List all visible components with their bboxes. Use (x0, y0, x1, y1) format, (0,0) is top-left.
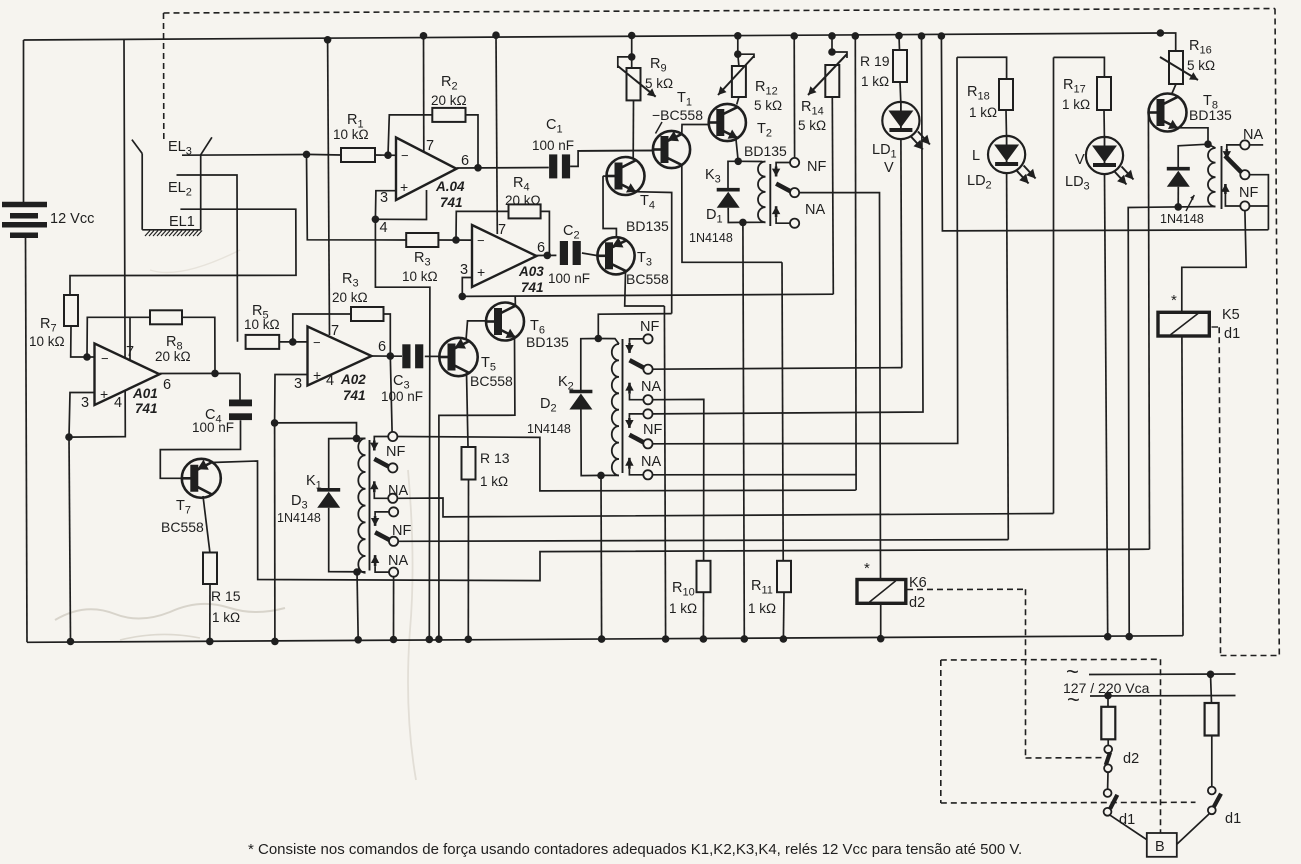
svg-text:10 kΩ: 10 kΩ (402, 269, 438, 284)
capacitor C3 (402, 344, 410, 368)
wire K3 bottom to 0V (743, 222, 744, 639)
svg-text:A01: A01 (132, 386, 158, 401)
node A01 pin3 (65, 433, 73, 441)
svg-text:741: 741 (343, 388, 366, 403)
switch d1R blade (1214, 794, 1221, 808)
contact d2 bottom (1104, 764, 1112, 772)
relay contacts K3 (776, 163, 790, 167)
node K3 coil top (734, 158, 742, 166)
relay core K1 (369, 440, 371, 571)
dashed K6 d2 route (907, 588, 1026, 590)
wire LD3 loop top (1054, 57, 1105, 77)
resistor R11 (777, 561, 791, 592)
svg-text:BD135: BD135 (744, 143, 787, 159)
wire 0V bottom bus (27, 636, 1183, 643)
svg-text:NF: NF (386, 444, 405, 460)
wire T6 emitter to 0V (439, 337, 515, 640)
wire R14 pot jog (832, 52, 847, 58)
svg-text:3: 3 (294, 376, 302, 392)
junction bottom bus 2 (206, 638, 214, 646)
svg-text:BD135: BD135 (526, 334, 569, 350)
wire A02 pin3 down (275, 375, 308, 423)
wire R9 pot jog (618, 57, 632, 68)
svg-text:V: V (884, 160, 894, 176)
svg-text:741: 741 (521, 280, 544, 295)
svg-text:NA: NA (388, 483, 408, 499)
wire A02 out down to K1 NF (390, 356, 392, 436)
wire d1L to B (1110, 815, 1149, 841)
fuse left (1107, 696, 1109, 707)
node AC line2 (1104, 692, 1112, 700)
wire R12 to T2 collector (737, 97, 739, 105)
junction bottom bus 11 (662, 635, 670, 643)
svg-text:BD135: BD135 (1189, 107, 1232, 123)
wire T6 collector tap (514, 296, 516, 306)
svg-text:3: 3 (380, 190, 388, 206)
svg-text:12 Vcc: 12 Vcc (50, 211, 94, 227)
node A02 pin3 (271, 419, 279, 427)
box B (1147, 833, 1177, 857)
relay contacts K2 group2 (629, 414, 643, 418)
svg-text:1N4148: 1N4148 (277, 511, 321, 525)
svg-text:B: B (1155, 839, 1165, 855)
svg-text:5 kΩ: 5 kΩ (798, 118, 826, 133)
node K4 coil bottom (1174, 203, 1182, 211)
node A01 out (211, 370, 219, 378)
capacitor C4 (229, 400, 252, 407)
node A02 inv (289, 338, 297, 346)
svg-text:7: 7 (331, 323, 339, 339)
svg-text:6: 6 (537, 240, 545, 256)
capacitor C2 (560, 241, 568, 265)
svg-text:*: * (864, 560, 870, 577)
wire T4 base to T3 collector (603, 176, 616, 238)
wire emitters to 0V (664, 306, 665, 639)
battery 12 Vcc (23, 40, 25, 203)
wire node to K1 coil top (275, 423, 357, 439)
wire K1 NF1 to bus riser (397, 437, 855, 491)
junction bottom bus 9 (598, 635, 606, 643)
svg-text:4: 4 (326, 373, 334, 389)
wire K4 NF right (1250, 205, 1269, 207)
wire R5 to A02 inv (279, 341, 307, 343)
svg-text:10 kΩ: 10 kΩ (29, 334, 65, 349)
svg-text:3: 3 (81, 395, 89, 411)
wire A01 pin3 down (69, 393, 95, 438)
wire +12V top bus (24, 33, 1161, 40)
wire D3 anode to coil bottom (329, 508, 366, 572)
svg-text:1 kΩ: 1 kΩ (669, 601, 697, 616)
junction bus A03supply (492, 31, 500, 39)
junction bottom bus 4 (426, 636, 434, 644)
node K2 coil bottom (597, 472, 605, 480)
transistor T8 (1149, 94, 1187, 132)
wire R4 to A03 out (541, 211, 550, 255)
diode D3 (317, 488, 340, 492)
LED LD2 (988, 136, 1025, 173)
wire A01 output (160, 372, 241, 374)
wire K4 common right (1250, 175, 1269, 230)
wire LD1 cathode down (900, 139, 903, 367)
wire R16 jog (1160, 33, 1175, 51)
svg-text:R 13: R 13 (480, 450, 510, 466)
node A04 out (474, 164, 482, 172)
wire K2 NA1 to R10 (653, 399, 704, 560)
wire R12 pot jog (738, 54, 754, 58)
wire R7 to A01 inv (71, 326, 95, 357)
node K1 coil top (353, 435, 361, 443)
resistor R1 (341, 148, 375, 162)
wire K4 NA stub (1250, 144, 1264, 146)
svg-text:R 15: R 15 (211, 588, 241, 604)
wire to C4 (239, 373, 241, 399)
wire EL1 to R7 (70, 209, 296, 295)
transistor T7 (182, 459, 221, 498)
wire R3b to A02 out (384, 314, 391, 356)
svg-text:+: + (100, 386, 108, 402)
resistor R15 (203, 553, 217, 585)
junction bus R9 (628, 32, 636, 40)
svg-text:100 nF: 100 nF (532, 138, 574, 153)
wire K1 NA2 to 0V (393, 577, 395, 640)
wire T3 emitter (625, 272, 665, 306)
junction bus 855 (852, 32, 860, 40)
LED LD3 (1086, 137, 1123, 174)
svg-text:NA: NA (805, 202, 825, 218)
junction bottom bus 6 (435, 635, 443, 643)
relay core K3 (769, 164, 771, 226)
wire pin3 stub right (375, 190, 426, 220)
diode D4 (1167, 167, 1190, 171)
svg-text:BC558: BC558 (626, 271, 669, 287)
svg-text:1 kΩ: 1 kΩ (1062, 97, 1090, 112)
wire LD3 cathode to 0V (1105, 174, 1108, 637)
arrow R16 wiper (1160, 57, 1198, 80)
wire EL3node to R1 (307, 153, 342, 156)
svg-text:10 kΩ: 10 kΩ (244, 317, 280, 332)
wire T1 collector down (682, 166, 782, 263)
dashed link border (1221, 655, 1280, 657)
svg-text:L: L (972, 148, 980, 164)
svg-text:BC558: BC558 (161, 519, 204, 535)
wire D4 anode (1177, 187, 1179, 207)
wire R15 to 0V (209, 584, 211, 641)
svg-text:R 19: R 19 (860, 53, 890, 69)
wire T4 emitter down (635, 192, 672, 314)
svg-text:d2: d2 (1123, 751, 1139, 767)
node K1 coil bottom (353, 568, 361, 576)
op-amp A03 (472, 225, 537, 287)
diode D2 (569, 390, 592, 394)
node K2 coil top (595, 335, 603, 343)
junction bottom bus 13 (1125, 633, 1133, 641)
svg-text:NA: NA (388, 553, 408, 569)
potentiometer R16 (1169, 51, 1183, 84)
pointer D4 label (1186, 195, 1194, 211)
svg-text:4: 4 (114, 395, 122, 411)
potentiometer R9 (627, 68, 641, 100)
node K4 coil top (1204, 140, 1212, 148)
resistor R10 (697, 561, 711, 592)
svg-text:5 kΩ: 5 kΩ (1187, 58, 1215, 73)
wire T2 emitter to K3 (736, 140, 738, 162)
node A02 out (387, 352, 395, 360)
junction bottom bus 5 (465, 636, 473, 644)
dashed K5 d1 route (1219, 327, 1220, 655)
svg-text:3: 3 (460, 262, 468, 278)
svg-text:NF: NF (1239, 185, 1258, 201)
junction bottom bus 7 (354, 636, 362, 644)
wire A02 output (372, 355, 403, 357)
svg-text:~: ~ (1067, 687, 1080, 712)
resistor R4 (509, 204, 541, 218)
svg-text:6: 6 (461, 153, 469, 169)
relay contacts K1 group1 (374, 437, 388, 441)
svg-text:6: 6 (378, 339, 386, 355)
junction bottom bus 14 (700, 635, 708, 643)
relay contacts K4 (1240, 140, 1249, 149)
switch d1L blade (1110, 795, 1117, 809)
wire bus riser x855 (854, 36, 857, 490)
wire bus to A04 pin7 (423, 36, 425, 152)
svg-text:20 kΩ: 20 kΩ (431, 93, 467, 108)
svg-text:+: + (400, 179, 408, 195)
wire K1 C2 to LD2 (398, 540, 1008, 542)
svg-text:−BC558: −BC558 (652, 107, 703, 123)
pointer T1 label (656, 122, 663, 134)
wire R16 to T8 collector (1172, 84, 1177, 95)
wire K1 NA1 to LD3 loop (398, 498, 1053, 517)
resistor R17 (1097, 77, 1111, 110)
wire K3 common to K6 (799, 193, 880, 580)
svg-text:−: − (313, 335, 321, 350)
svg-text:20 kΩ: 20 kΩ (332, 290, 368, 305)
wire d2 to d1 (1107, 772, 1109, 789)
wire D1 cathode (728, 161, 738, 189)
wire D4 cathode (1178, 144, 1208, 169)
wire T7 emitter to T8 base (212, 461, 1150, 581)
relay coil K2 (612, 344, 619, 475)
switch d2 blade (1106, 753, 1110, 766)
wire K2 NF2 to bus (653, 36, 924, 414)
wire LD3 loop left (1053, 57, 1055, 513)
wire bus to K4 common (941, 36, 1268, 231)
svg-text:NF: NF (643, 422, 662, 438)
junction bottom bus 10 (741, 635, 749, 643)
svg-text:BC558: BC558 (470, 373, 513, 389)
wire A03 feedback up (456, 211, 509, 240)
svg-text:741: 741 (440, 195, 463, 210)
svg-text:K6: K6 (909, 575, 927, 591)
wire bus to A02 pin7 (328, 40, 330, 335)
node K3 coil bottom (739, 219, 747, 227)
svg-text:5 kΩ: 5 kΩ (754, 98, 782, 113)
svg-text:7: 7 (426, 138, 434, 154)
junction bus A02supply (324, 36, 332, 44)
wire K2 NA2 to riser (653, 474, 856, 476)
transistor T2 (709, 104, 746, 141)
wire bus to A01+ node (69, 40, 125, 437)
arrow R14 wiper (808, 54, 847, 95)
junction bottom bus 3 (271, 638, 279, 646)
wire R11 to 0V (782, 592, 785, 639)
wire K2 coil top to T4 emitter (598, 314, 671, 339)
relay coil K3 (758, 162, 766, 223)
relay coil K4 (1208, 148, 1216, 207)
op-amp A02 (308, 327, 372, 386)
wire R14 wiper line down (832, 97, 833, 294)
node A03 out (544, 252, 552, 260)
wire R13 to 0V (467, 480, 469, 640)
junction bus R14 (828, 32, 836, 40)
wire D1 anode (728, 208, 743, 223)
wire R19 to LD1 (899, 82, 902, 102)
resistor R13 (462, 447, 476, 480)
svg-text:1 kΩ: 1 kΩ (212, 610, 240, 625)
wire T8 emitter to K4 coil (1178, 128, 1209, 144)
capacitor C1 (549, 154, 557, 178)
wire A02 feedback up (293, 314, 351, 342)
junction bus R19 (895, 32, 903, 40)
svg-text:d1: d1 (1225, 811, 1241, 827)
potentiometer R14 (825, 65, 839, 97)
wire A04 output to C1 (457, 167, 549, 170)
resistor R2 (432, 108, 465, 122)
junction bus R12 (734, 32, 742, 40)
svg-text:V: V (1075, 152, 1085, 168)
svg-text:1 kΩ: 1 kΩ (748, 601, 776, 616)
junction bottom bus 16 (877, 635, 885, 643)
junction bus K3NF (790, 32, 798, 40)
svg-text:1N4148: 1N4148 (527, 422, 571, 436)
junction bottom bus 8 (390, 636, 398, 644)
wire T1 emitter to T2 base (682, 125, 713, 135)
dashed center to B (1160, 659, 1162, 833)
wire R10 to 0V (702, 592, 704, 639)
wire K2 C2 to LD2 loop (653, 57, 958, 444)
relay core K2 (622, 339, 624, 473)
wire to D3 (329, 438, 366, 489)
wire A01 feedback up (87, 317, 150, 357)
svg-text:NA: NA (641, 454, 661, 470)
svg-text:* Consiste nos comandos de for: * Consiste nos comandos de força usando … (248, 841, 1022, 858)
node A04 inv (384, 151, 392, 159)
wire node down to 0V (274, 423, 276, 642)
wire EL3 to node (182, 154, 307, 157)
wire K4 NF to K5 (1182, 211, 1246, 313)
potentiometer R12 (732, 66, 746, 97)
wire to R11 (782, 262, 783, 561)
node R14 top (828, 48, 836, 56)
svg-text:A03: A03 (518, 264, 544, 279)
svg-text:1N4148: 1N4148 (689, 231, 733, 245)
node R12 top (734, 50, 742, 58)
electrode sensor cup (132, 140, 142, 154)
wire C2 to T3 base (582, 253, 597, 256)
wire A03 output (537, 254, 557, 256)
wire D2 anode to coil bottom (581, 410, 601, 476)
svg-text:d1: d1 (1224, 326, 1240, 342)
wire EL3node down to R3a (307, 154, 407, 240)
svg-text:741: 741 (135, 401, 158, 416)
junction bottom bus 15 (780, 635, 788, 643)
wire A01 pin7 stub (129, 318, 131, 361)
svg-text:1N4148: 1N4148 (1160, 212, 1204, 226)
wire R9 to T4 collector (632, 100, 634, 157)
junction bottom bus 1 (67, 638, 75, 646)
svg-text:4: 4 (380, 220, 388, 236)
node A03 inv (452, 236, 460, 244)
wire A04 pin4 to 0V (375, 219, 430, 639)
wire into T1 base (578, 150, 653, 152)
svg-text:+: + (313, 367, 321, 383)
contact d1L bottom (1104, 808, 1112, 816)
contact d1L top (1104, 789, 1112, 797)
diode D1 (717, 188, 740, 192)
svg-text:1 kΩ: 1 kΩ (480, 474, 508, 489)
wire K4 coil bottom to 0V (1128, 207, 1215, 637)
junction bottom bus 12 (1104, 633, 1112, 641)
svg-text:20 kΩ: 20 kΩ (155, 349, 191, 364)
svg-text:*: * (1171, 292, 1177, 309)
wire R2 to A04 out (466, 115, 479, 168)
relay coil K1 (358, 438, 365, 572)
svg-text:20 kΩ: 20 kΩ (505, 193, 541, 208)
svg-text:10 kΩ: 10 kΩ (333, 127, 369, 142)
junction bus R16 (1157, 29, 1165, 37)
transistor T6 (486, 303, 524, 341)
svg-text:K5: K5 (1222, 307, 1240, 323)
node R9 top (628, 53, 636, 61)
svg-text:NF: NF (807, 159, 826, 175)
op-amp A01 (95, 344, 160, 406)
wire A04 pin3 down (375, 191, 396, 220)
node A01 inv (83, 353, 91, 361)
svg-text:A02: A02 (340, 372, 366, 387)
arrow R9 wiper (618, 66, 656, 97)
wire C1 to T1 base (570, 151, 652, 167)
wire T7 collector to R15 (203, 496, 210, 553)
resistor R5 (246, 335, 280, 349)
resistor R3b (351, 307, 384, 321)
svg-text:NA: NA (1243, 127, 1263, 143)
node A03 pin3 (459, 293, 467, 301)
resistor R7 (64, 295, 78, 326)
LED LD1 (882, 102, 919, 139)
svg-text:EL1: EL1 (169, 214, 195, 230)
wire R18 to LD2 (1005, 110, 1008, 136)
svg-text:100 nF: 100 nF (548, 271, 590, 286)
svg-text:A.04: A.04 (435, 179, 465, 194)
svg-text:−: − (101, 351, 109, 366)
svg-text:100 nF: 100 nF (192, 420, 234, 435)
wire A04 feedback up (388, 115, 432, 155)
wire T8 base down (1148, 113, 1149, 550)
svg-text:1 kΩ: 1 kΩ (861, 74, 889, 89)
arrow R12 wiper (718, 56, 754, 95)
wire C4 to T7 base (160, 420, 240, 478)
node EL3 (303, 151, 311, 159)
svg-text:d2: d2 (909, 595, 925, 611)
fuse right (1211, 674, 1212, 703)
node A04 pin34 (372, 216, 380, 224)
svg-text:NF: NF (640, 319, 659, 335)
contact d1R top (1208, 787, 1216, 795)
transistor T1 (653, 131, 690, 168)
svg-text:7: 7 (498, 222, 506, 238)
transistor T4 (607, 157, 645, 195)
svg-text:NA: NA (641, 379, 661, 395)
